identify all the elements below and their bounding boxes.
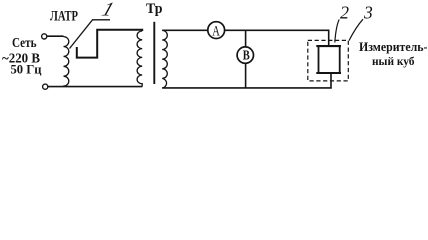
measuring cube right wall [339,46,341,73]
svg-text:ЛАТР: ЛАТР [50,8,78,24]
svg-text:50 Гц: 50 Гц [11,61,42,76]
measuring cube bottom electrode plate [316,72,341,74]
autotransformer winding (ЛАТР) [64,37,69,87]
svg-text:2: 2 [340,2,349,22]
terminal top input [42,34,47,39]
wire voltmeter bottom branch [245,63,247,88]
leader line for label 2 [335,20,339,43]
svg-text:А: А [212,23,220,39]
svg-text:В: В [243,48,250,63]
wire ammeter to cube top stem [225,30,329,46]
wire secondary bottom to cube bottom stem [162,73,331,88]
svg-text:Сеть: Сеть [12,35,37,50]
wire wiper output staircase to transformer primary [77,30,142,58]
measuring cube left wall [318,46,320,73]
svg-text:ный куб: ный куб [372,54,415,68]
wire bottom terminal to transformer primary bottom [48,86,142,88]
terminal bottom input [43,84,48,89]
wire voltmeter top branch [245,30,247,47]
transformer Тр secondary winding [162,30,167,88]
ammeter A [208,22,225,39]
leader line for label 3 [349,19,363,40]
wire secondary top to ammeter [162,29,208,31]
transformer core [153,22,155,84]
transformer Тр primary winding [137,31,142,87]
voltmeter В [237,47,253,63]
svg-text:Измеритель-: Измеритель- [359,39,428,54]
measuring cube top electrode plate [316,45,341,47]
svg-text:3: 3 [363,2,373,22]
dashed screen box of measuring cube [308,40,349,81]
wire top terminal to LATR winding [47,35,64,37]
wiper arrow of ЛАТР / leader line for label 1 [70,20,111,49]
svg-text:Тр: Тр [146,1,163,17]
